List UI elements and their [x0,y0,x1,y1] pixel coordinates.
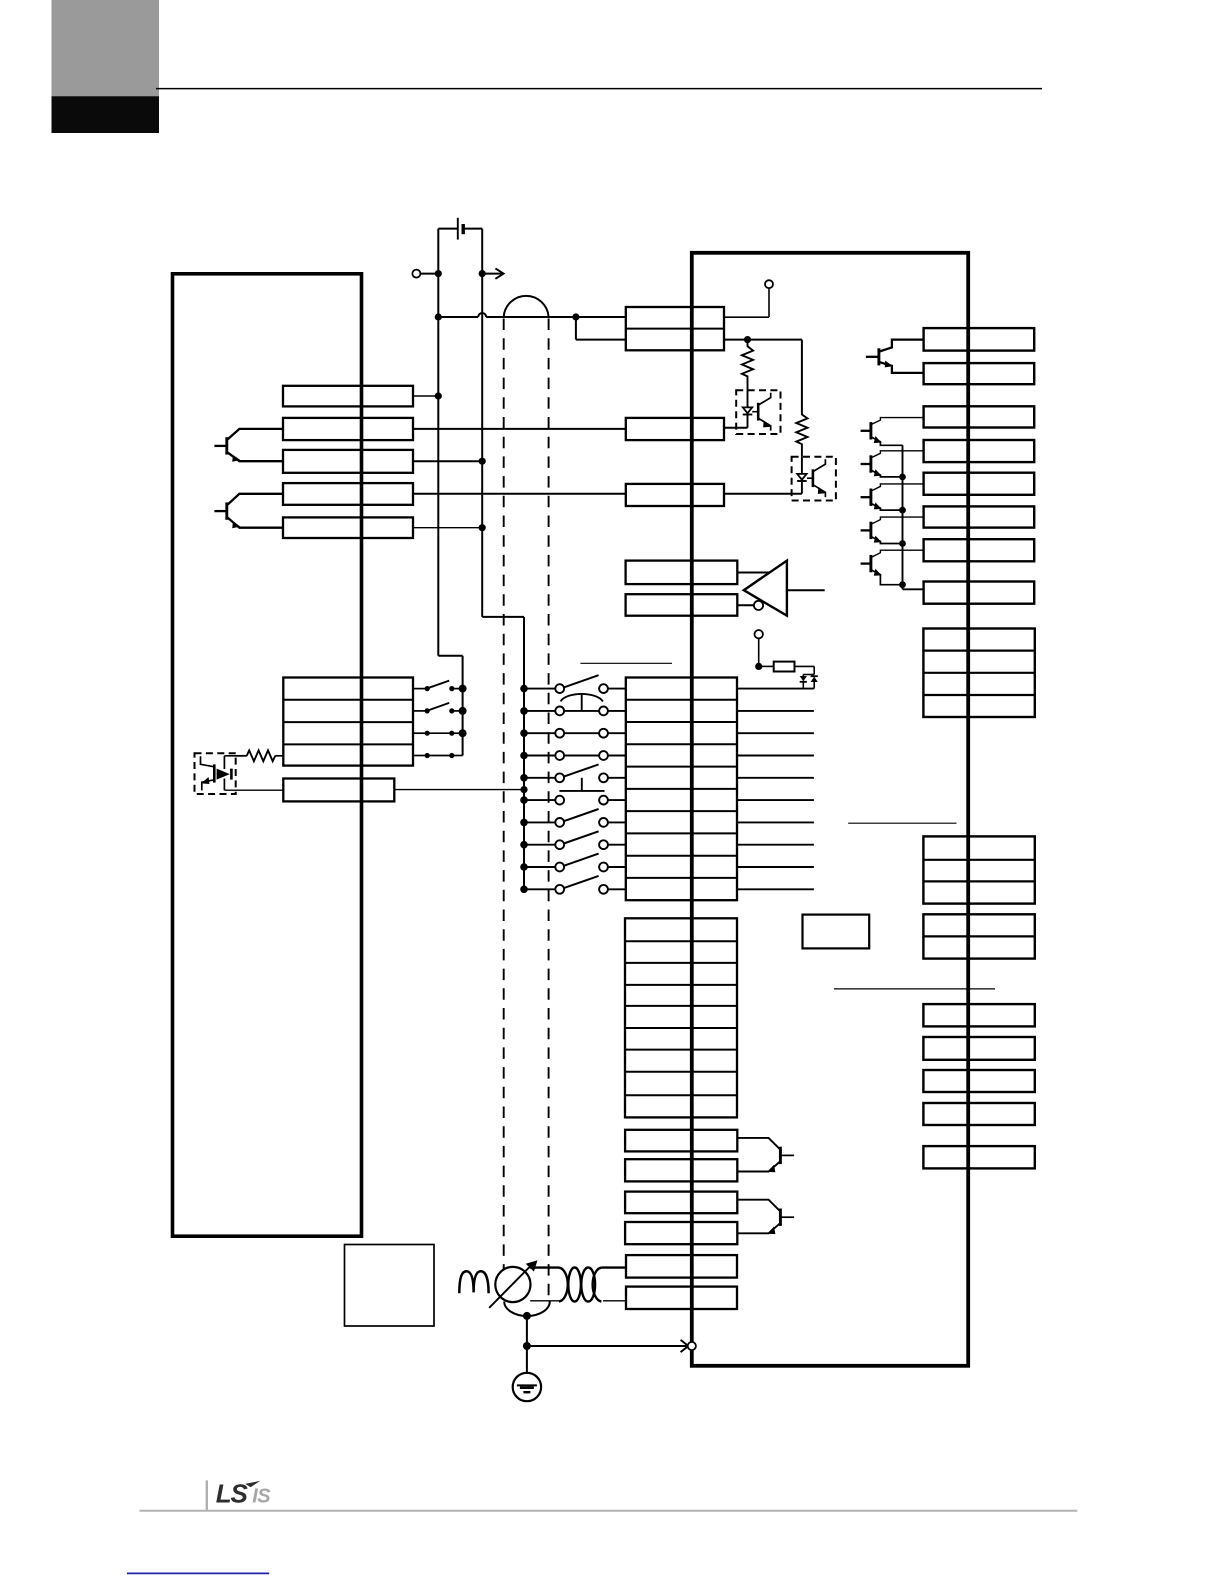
coil top wire to pin [601,1266,626,1268]
wire CN1 pin 10 to drive circuit [737,888,814,890]
page header gray tab [52,0,160,96]
wire CN1 pin 6 to drive circuit [737,799,814,801]
wire circle down to node [758,638,760,666]
optocoupler PC1 LED feed [224,755,246,757]
transistor Q3 base bar [877,348,880,365]
wire R2 to diode pair [795,665,815,667]
wire battery left leg [437,229,439,656]
wire L5 to right leg [413,527,482,529]
transistor Q10 base bar [779,1209,782,1226]
output terminal table T1 (4 rows) [923,629,1034,718]
switch SW3 [413,732,425,734]
transistor Q7 emitter [872,537,903,544]
wire L2 long (to pin C) [413,428,626,430]
terminal box L5 [283,517,413,538]
battery B1 long plate [457,218,459,240]
transistor Q3 emitter [880,362,924,373]
terminal box Q10a [625,1192,737,1214]
node on right leg row E [479,270,486,277]
arrowhead into FG [681,1340,689,1352]
wire E to node [420,273,438,275]
optocoupler PC3 phototransistor [812,469,815,487]
switch row M1 (blade) [520,685,528,693]
square box (filter) [345,1245,435,1327]
shield bottom sag arc [504,1302,550,1316]
wire L4 long (to pin D) [413,493,626,495]
wire row317 right [486,316,576,318]
op-amp U1 triangle [744,561,787,616]
terminal box coil B [626,1287,737,1309]
node L1 on left leg [435,392,442,399]
switch row M7 (blade) [520,819,528,827]
terminal box L3 [283,450,413,473]
output terminal box R5 [924,473,1035,495]
terminal box C [626,418,724,440]
emitter bus [902,445,904,589]
switch row M2 (arc) [520,707,528,715]
terminal box P2 (op-amp -) [626,594,738,616]
terminal box Q9b [625,1159,737,1181]
resistor R1 (zigzag) [236,755,247,757]
wire pin C to PC2 [724,427,748,429]
output terminal box S5 [923,1146,1034,1168]
terminal circle above surge network [755,630,763,638]
shield dashed line left [503,319,505,1302]
protective earth symbol [513,1373,541,1401]
switch SW2 [413,710,425,712]
switch row M3 (closed) [520,729,528,737]
output terminal box S4 [923,1103,1034,1125]
wire circle to pin A [768,288,770,317]
transistor Q2 base bar [225,502,228,519]
transistor Q10 base lead [780,1216,794,1218]
terminal box P1 (op-amp +) [626,561,738,585]
transistor Q10 collector [737,1200,779,1211]
transistor Q1 base lead [214,445,226,447]
AC source squiggle [459,1271,488,1293]
resistor R3 (zigzag vertical) [742,340,753,391]
internal block box [803,915,870,949]
node ground tee [523,1342,531,1350]
node row317 [572,313,579,320]
transistor Q5 base lead [861,463,871,465]
terminal circle E [412,270,420,278]
transistor Q9 emitter [737,1162,779,1172]
output terminal box R6 [924,506,1035,527]
variable transformer circle [495,1267,530,1302]
transistor Q8 base lead [861,562,871,564]
transistor Q9 base lead [780,1154,794,1156]
resistor R2 (box) [774,662,795,672]
transistor Q8 base bar [869,555,872,572]
terminal box D [626,484,724,506]
transistor Q6 collector [872,484,924,491]
switch SW1 [413,688,425,690]
wire hop over right leg [478,313,486,317]
wire CN1 pin 2 to drive circuit [737,710,814,712]
transistor Q2 collector [228,494,283,505]
battery B1 short plate [462,224,465,234]
wire CN1 pin 7 to drive circuit [737,821,814,823]
middle bus elbow from battery right leg [482,616,524,618]
transistor Q3 base lead [866,356,879,358]
output terminal box S2 [923,1037,1034,1060]
footer rule [140,1510,1078,1512]
terminal box Q10b [625,1222,737,1244]
node emitter bus Q5 [899,474,906,481]
transistor Q4 emitter [872,437,903,445]
output terminal table T3 (2 rows) [923,914,1034,958]
transistor Q6 base lead [861,496,871,498]
node L5 on right leg [479,524,486,531]
switch row M8 (blade) [520,841,528,849]
drive-side box (right) [692,253,968,1366]
diode D2 (up) [811,675,818,677]
switch row M10 (blade) [520,886,528,894]
transistor Q4 base lead [861,430,871,432]
terminal box Q9a [625,1130,737,1152]
transformer top wire [530,1266,559,1268]
transistor Q5 emitter [872,471,903,477]
node emitter bus Q8 [899,581,906,588]
transistor Q1 base bar [225,437,228,454]
wire L3 to right leg [413,460,482,462]
transistor Q2 base lead [214,510,226,512]
wire PC1 to L10 [224,789,283,791]
terminal box L10 [283,779,394,802]
terminal circle FG [688,1342,696,1350]
switch row M6 (open) [520,796,528,804]
wire CN1 pin 1 to drive circuit [737,688,814,690]
node pin B [744,336,751,343]
transistor Q7 base bar [869,522,872,539]
arrow out of right leg [482,273,502,275]
wire pin B to node [724,339,748,341]
battery B1 right wire [463,228,482,230]
wire CN1 pin 4 to drive circuit [737,755,814,757]
output terminal box R8 [924,582,1035,604]
resistor R4 (zigzag vertical) [796,413,807,457]
transistor Q5 collector [872,451,924,458]
terminal block stack L6-L9 [283,678,413,766]
op-amp U1 invert bubble [754,601,763,610]
transistor Q1 emitter [228,452,283,461]
transistor Q10 emitter [737,1224,779,1234]
label underline right 2 [834,988,995,990]
terminal box L1 [283,386,413,407]
motor-side box (left) [173,274,362,1236]
output terminal box R7 [924,539,1035,561]
wire L1 to left leg [413,395,438,397]
page header black tab [52,96,160,133]
output terminal box R2 [924,363,1035,384]
battery B1 left wire [438,228,457,230]
inductor coil [559,1268,568,1302]
wire CN1 pin 8 to drive circuit [737,844,814,846]
terminal box L2 [283,418,413,440]
wire CN1 pin 5 to drive circuit [737,777,814,779]
switch row M9 (blade) [520,863,528,871]
output terminal box R4 [924,440,1035,462]
transistor Q8 emitter [872,570,903,585]
wire P2 to U1 bubble [737,604,754,606]
transistor Q9 collector [737,1138,779,1149]
label underline above CN1 [580,662,672,664]
wire elbow row317 to lower pin [575,317,577,340]
footer blue link underline [127,1572,269,1574]
output terminal box S3 [923,1070,1034,1092]
wire U1 output [787,589,825,591]
optocoupler PC1 phototransistor [213,764,216,782]
terminal box A (pin row) [626,307,724,350]
transistor Q4 collector [872,418,924,425]
node emitter bus Q6 [899,507,906,514]
optocoupler PC2 dashed box [736,390,780,434]
terminal box L4 [283,483,413,505]
footer logo bar [206,1480,208,1510]
transistor Q1 collector [228,429,283,440]
optocoupler PC1 LED [217,769,230,780]
wire node to resistor R2 [759,665,774,667]
transistor Q9 base bar [779,1147,782,1164]
wire pin D to PC3 [724,493,802,495]
label underline right 1 [848,822,956,824]
node surge network [755,663,762,670]
transistor Q5 base bar [869,455,872,472]
coil bottom wire to pin [603,1300,626,1302]
switch SW4 [413,755,425,757]
output terminal box S1 [923,1004,1034,1026]
wire node B to R4 [748,339,802,341]
node L10 on middle bus [520,786,527,793]
optocoupler PC3 dashed box [792,457,836,501]
wire CN1 pin 9 to drive circuit [737,866,814,868]
optocoupler PC2 phototransistor [757,403,760,421]
transistor Q3 collector [880,340,924,352]
node shield wire at left leg [435,313,442,320]
node on left leg row E [435,270,442,277]
transistor Q8 collector [872,550,924,557]
terminal circle above pin A [765,280,773,288]
wire row317 to pin box [576,316,626,318]
switch bus node 1 [459,685,467,693]
node emitter bus Q7 [899,540,906,547]
wire CN1 pin 3 to drive circuit [737,732,814,734]
wire P1 to U1 [737,572,769,574]
node shield drain [523,1312,531,1320]
node L3 on right leg [479,458,486,465]
shield dashed line right [548,319,550,1300]
switch row M4 (closed) [520,752,528,760]
transistor Q7 base lead [861,529,871,531]
connector CN1 middle stack (10 pins) [626,678,737,901]
transformer bottom wire [530,1300,559,1302]
svg-text:LS: LS [216,1479,249,1509]
output terminal table T2 (3 rows) [923,836,1034,903]
variable transformer arrow [489,1266,530,1308]
optocoupler PC1 LED out [223,779,225,791]
transistor Q6 base bar [869,489,872,506]
switch bus node 2 [459,707,467,715]
shield hump arc [504,296,549,317]
transistor Q2 emitter [228,518,283,528]
switch bus elbow from battery left leg [438,655,462,657]
header rule [156,88,1042,90]
optocoupler PC1 dashed box [195,753,236,794]
wire L10 to middle bus [394,789,524,791]
transistor Q7 collector [872,517,924,524]
transistor Q6 emitter [872,504,903,510]
connector CN2 stack (9 pins) [625,918,737,1117]
output terminal box R3 [924,406,1035,427]
optocoupler PC2 LED [747,390,749,407]
transistor Q4 base bar [869,422,872,439]
wire row317 left [438,316,478,318]
switch row M5 (bladebar) [520,774,528,782]
terminal box coil A [626,1255,737,1278]
wire battery right leg [481,229,483,617]
wire shield drain down [526,1316,528,1386]
svg-text:IS: IS [252,1485,271,1507]
wire to drive FG [527,1345,688,1347]
diode D1 (down) [802,675,804,677]
output terminal box R1 [924,328,1035,351]
switch bus node 3 [459,729,467,737]
optocoupler PC3 LED [801,457,803,474]
